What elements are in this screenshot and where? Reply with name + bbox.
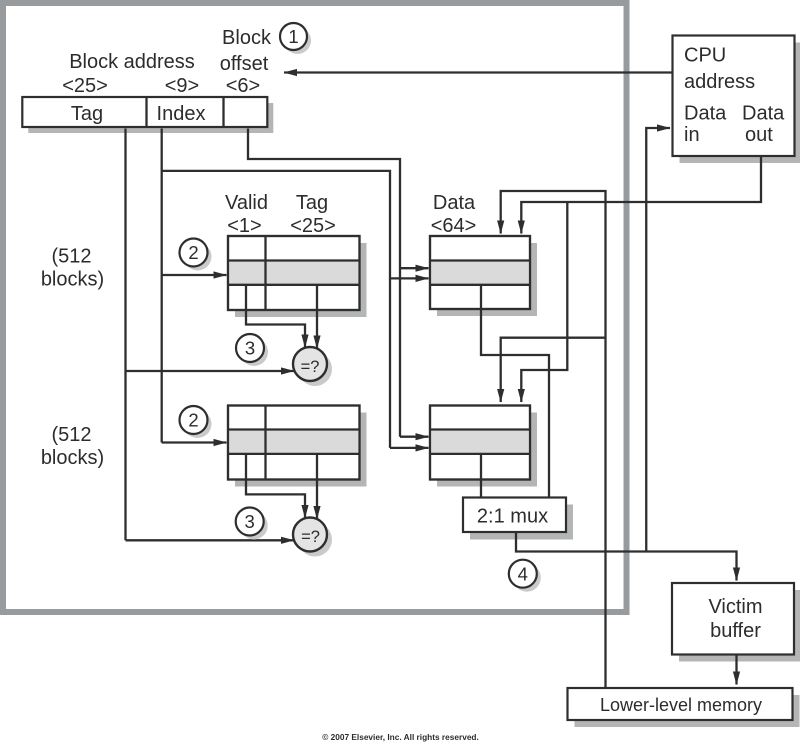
wire lower level refill <box>501 191 606 688</box>
wire index arrow into data way2 <box>390 447 429 449</box>
svg-text:Index: Index <box>157 103 206 125</box>
svg-text:blocks): blocks) <box>41 447 104 469</box>
wire tag compare arrow way1 <box>126 370 295 372</box>
wire tag compare arrow way2 <box>126 539 295 541</box>
svg-text:3: 3 <box>245 338 255 359</box>
wire offset arrow into data way2 <box>400 436 429 438</box>
svg-text:Data: Data <box>684 103 727 125</box>
svg-text:buffer: buffer <box>710 620 761 642</box>
svg-text:Lower-level memory: Lower-level memory <box>600 695 762 715</box>
label (512 blocks) way1 <box>41 246 104 291</box>
svg-text:Tag: Tag <box>71 103 103 125</box>
CPU box <box>673 36 800 164</box>
svg-text:2:1 mux: 2:1 mux <box>477 506 548 528</box>
svg-text:© 2007 Elsevier, Inc. All righ: © 2007 Elsevier, Inc. All rights reserve… <box>322 732 479 742</box>
svg-text:Block address: Block address <box>69 51 195 73</box>
svg-text:<9>: <9> <box>165 75 199 97</box>
svg-text:4: 4 <box>518 563 528 584</box>
wire index branch to data arrays <box>162 171 390 448</box>
wire index arrow way2 <box>162 441 227 443</box>
step circle 1 <box>280 23 311 54</box>
label Valid <1> <box>225 192 268 237</box>
wire tag output way2 <box>316 454 318 519</box>
svg-text:Data: Data <box>433 192 476 214</box>
svg-text:=?: =? <box>301 528 320 546</box>
svg-text:(512: (512 <box>51 246 91 268</box>
data array way2 <box>430 406 537 487</box>
svg-text:blocks): blocks) <box>41 269 104 291</box>
comparator way1 <box>293 347 332 386</box>
wire mux output to victim buffer <box>516 532 737 581</box>
label Data <64> <box>431 192 477 237</box>
svg-text:<25>: <25> <box>290 215 336 237</box>
victim buffer box <box>672 583 800 662</box>
wire tag output way1 <box>316 285 318 349</box>
label (512 blocks) way2 <box>41 424 104 469</box>
wire refill branch way2 <box>501 338 606 402</box>
comparator way2 <box>293 518 332 557</box>
svg-text:CPU: CPU <box>684 45 726 67</box>
svg-text:in: in <box>684 124 700 146</box>
wire CPU data out <box>521 157 761 234</box>
svg-text:2: 2 <box>188 242 198 263</box>
tag array way2 <box>228 406 367 487</box>
wire valid output way1 <box>246 285 305 348</box>
wire index arrow way1 <box>162 274 227 276</box>
label Tag <25> <box>290 192 336 237</box>
mux 2:1 <box>463 498 573 540</box>
svg-text:Tag: Tag <box>296 192 328 214</box>
wire block offset line <box>248 129 400 437</box>
svg-text:Valid: Valid <box>225 192 268 214</box>
svg-text:offset: offset <box>220 53 269 75</box>
step circle 3 way2 <box>236 508 268 540</box>
lower level memory box <box>568 688 800 727</box>
svg-text:<25>: <25> <box>62 75 108 97</box>
wire data output way1 <box>481 285 549 497</box>
svg-text:Block: Block <box>222 27 272 49</box>
wire index vertical <box>161 129 163 443</box>
svg-text:(512: (512 <box>51 424 91 446</box>
wire CPU address to block offset <box>284 71 672 73</box>
wire tag vertical <box>124 129 126 541</box>
tag array way1 <box>228 236 367 317</box>
wire data in to CPU <box>646 128 670 552</box>
svg-text:<1>: <1> <box>227 215 261 237</box>
svg-text:<64>: <64> <box>431 215 477 237</box>
svg-text:Data: Data <box>742 103 785 125</box>
svg-text:2: 2 <box>188 410 198 431</box>
wire data output way2 <box>480 454 482 497</box>
step circle 3 way1 <box>236 334 268 366</box>
cache frame <box>3 3 627 612</box>
svg-text:3: 3 <box>245 511 255 532</box>
wire index arrow into data way1 <box>390 277 429 279</box>
wire victim buffer to lower level memory <box>735 655 737 685</box>
wire offset arrow into data way1 <box>400 267 429 269</box>
svg-text:1: 1 <box>288 26 298 47</box>
step circle 4 <box>509 560 541 592</box>
svg-text:out: out <box>745 124 773 146</box>
address bar (Tag | Index | offset) <box>22 97 273 133</box>
svg-text:Victim: Victim <box>708 596 762 618</box>
wire data out branch way2 <box>521 202 567 402</box>
svg-text:address: address <box>684 71 755 93</box>
step circle 2 way1 <box>180 239 212 271</box>
label Block offset <box>220 27 272 75</box>
wire valid output way2 <box>246 454 305 518</box>
data array way1 <box>430 236 537 316</box>
svg-text:=?: =? <box>301 358 320 376</box>
step circle 2 way2 <box>180 406 212 438</box>
svg-text:<6>: <6> <box>226 75 260 97</box>
